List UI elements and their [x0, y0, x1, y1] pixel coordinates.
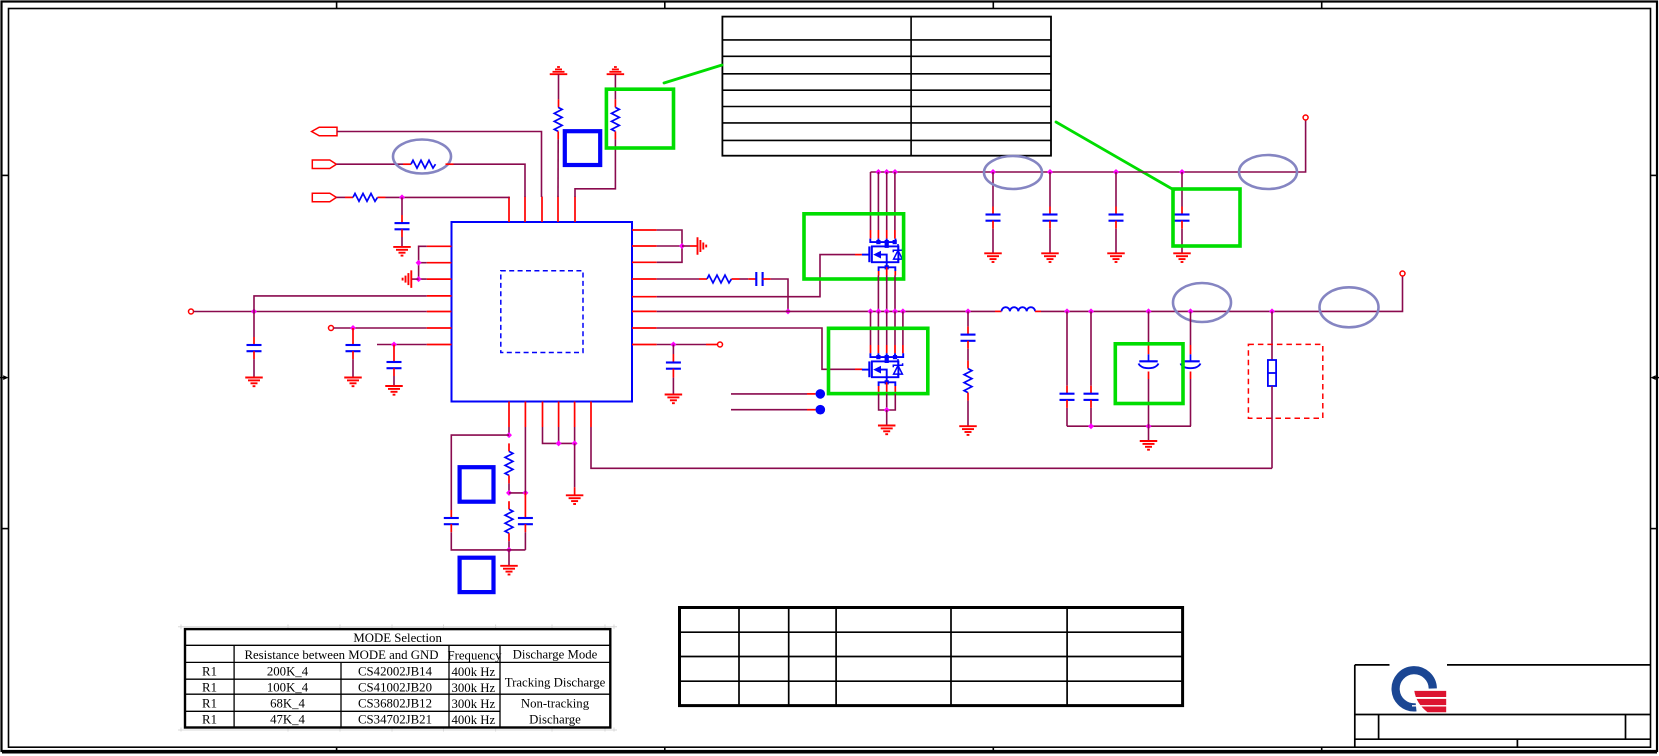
- junction: [1047, 169, 1053, 175]
- resistor R6: [707, 275, 732, 283]
- svg-text:47K_4: 47K_4: [270, 713, 305, 727]
- wire R6 to C5: [732, 278, 757, 280]
- wire C6 to ground: [672, 369, 674, 395]
- ground (left, rotated): [403, 270, 412, 288]
- junction: [1064, 308, 1070, 314]
- highlight box (green) around R5: [606, 89, 673, 148]
- wire rail to C10: [1115, 172, 1117, 215]
- wire rail to C8: [992, 172, 994, 215]
- wire SW to F1: [1271, 311, 1273, 360]
- junction: [1188, 308, 1194, 314]
- ground (C2): [245, 378, 263, 387]
- svg-text:R1: R1: [202, 665, 217, 679]
- ground (C6): [665, 395, 683, 404]
- wire to left ground: [411, 278, 418, 280]
- port P2 (input, arrow right): [312, 160, 336, 169]
- wire rail to C12: [1181, 172, 1183, 215]
- ellipse marker (VOUT): [1320, 287, 1379, 327]
- junction: [1088, 423, 1094, 429]
- junction: [506, 547, 512, 553]
- svg-text:CS36802JB12: CS36802JB12: [358, 697, 432, 711]
- junction: [900, 308, 906, 314]
- wire branch to upper pin: [254, 296, 427, 312]
- title block frame: [1355, 665, 1651, 747]
- wire SW to C16: [1190, 311, 1192, 354]
- highlight box (green) around Q1: [804, 214, 904, 279]
- wire C12 to ground: [1181, 221, 1183, 254]
- wire to ground: [508, 550, 510, 566]
- transistor Q1 (P-MOSFET): [862, 242, 903, 267]
- port P3 (input, arrow right): [312, 193, 336, 202]
- svg-text:Discharge Mode: Discharge Mode: [513, 647, 598, 661]
- svg-text:300k Hz: 300k Hz: [452, 697, 496, 711]
- wire P2 to R2: [336, 163, 411, 165]
- junction: [679, 243, 685, 249]
- fuse F1 (optional, in DNP box): [1268, 360, 1276, 386]
- junction: [350, 325, 356, 331]
- junction: [875, 308, 881, 314]
- junction: [416, 260, 422, 266]
- source bar Q2: [879, 380, 896, 393]
- svg-text:Tracking Discharge: Tracking Discharge: [505, 676, 606, 690]
- capacitor C8: [986, 215, 1001, 221]
- svg-text:200K_4: 200K_4: [267, 665, 309, 679]
- wire C14 down: [1090, 400, 1092, 426]
- ellipse marker (top rail): [984, 156, 1042, 189]
- drain bar Q2: [870, 353, 903, 363]
- wire C18 down: [524, 524, 526, 550]
- capacitor C7 (snubber): [961, 335, 976, 341]
- junction: [1146, 423, 1152, 429]
- svg-text:Resistance between MODE and GN: Resistance between MODE and GND: [244, 648, 438, 662]
- ellipse marker (SW rail): [1173, 283, 1231, 322]
- ground (Q2 source): [878, 426, 896, 435]
- junction: [875, 169, 881, 175]
- wire divider R8: [508, 443, 510, 451]
- table: notes block (empty): [680, 608, 1183, 706]
- ground (C4): [385, 386, 403, 395]
- capacitor C18: [518, 518, 533, 524]
- wire gnd to R4: [558, 74, 560, 107]
- wire SW to C13: [1066, 311, 1068, 393]
- wire C1 to ground: [401, 229, 403, 247]
- wire to C6: [672, 345, 674, 363]
- capacitor C6: [666, 363, 681, 369]
- resistor R7 (snubber): [964, 369, 972, 393]
- wire C18: [524, 493, 526, 518]
- resistor R4: [554, 107, 562, 131]
- wire TP1 to U1: [194, 311, 427, 313]
- junction: [572, 440, 578, 446]
- svg-text:Non-tracking: Non-tracking: [521, 697, 590, 711]
- power ground symbol (R5 top): [607, 67, 625, 74]
- svg-text:CS34702JB21: CS34702JB21: [358, 713, 432, 727]
- wire SW to C14: [1090, 311, 1092, 393]
- wire to ground: [886, 410, 888, 426]
- wire to C4: [393, 345, 395, 363]
- junction: [1179, 169, 1185, 175]
- resistor R8: [505, 451, 513, 475]
- wire P1 to U1 top pin: [337, 132, 542, 198]
- capacitor C5 (series): [756, 272, 762, 286]
- svg-text:Discharge: Discharge: [529, 713, 581, 727]
- highlight box (green) around C15: [1115, 344, 1183, 404]
- wire to C3: [352, 328, 354, 345]
- capacitor C15 (polarized): [1139, 354, 1159, 368]
- port TP3 (open circle): [718, 342, 723, 347]
- DNP dashed box (red): [1248, 344, 1322, 418]
- wire to ground: [1148, 426, 1150, 441]
- wire to test point TP4: [731, 389, 825, 399]
- blue marker box B1: [565, 131, 600, 165]
- junction: [670, 342, 676, 348]
- resistor R3: [353, 194, 378, 202]
- ellipse marker around R2: [393, 140, 451, 174]
- power ground symbol (R4 top): [550, 67, 568, 74]
- wire SW rail: [657, 310, 1002, 312]
- wire SW to C15: [1148, 311, 1150, 354]
- highlight box (green) around Q2: [829, 328, 928, 393]
- capacitor C4: [387, 362, 402, 368]
- svg-text:CS42002JB14: CS42002JB14: [358, 665, 433, 679]
- junction: [884, 407, 890, 413]
- port TP2 (open circle): [329, 326, 334, 331]
- junction: [868, 308, 874, 314]
- transistor Q2 (P-MOSFET): [862, 357, 903, 382]
- ground (bottom pins): [566, 495, 584, 504]
- capacitor C17: [444, 518, 459, 524]
- junction: [251, 309, 257, 315]
- wire pin to TP3/C6: [657, 344, 718, 346]
- source bar Q1: [879, 265, 896, 275]
- wire R8 to R9: [508, 475, 510, 493]
- wire SW to Q2 drain bus: [871, 311, 903, 353]
- wire gnd to R5: [614, 74, 616, 107]
- wire to C2: [253, 312, 255, 346]
- wire stub with C4: [377, 344, 427, 346]
- ellipse marker (near VIN): [1239, 155, 1297, 189]
- wire U1 to Q1 gate: [657, 255, 862, 297]
- wire R2 to U1 top pin: [446, 164, 526, 197]
- junction: [391, 342, 397, 348]
- wire bottom pins tie: [543, 427, 575, 443]
- capacitor C16 (polarized): [1181, 354, 1201, 368]
- wire C15 down: [1148, 372, 1150, 427]
- junction: [884, 308, 890, 314]
- port TP1 (open circle): [189, 309, 194, 314]
- junction: [1269, 308, 1275, 314]
- wire feedback run (bottom): [591, 427, 1272, 468]
- junction: [965, 308, 971, 314]
- capacitor C9: [1043, 215, 1058, 221]
- svg-text:68K_4: 68K_4: [270, 697, 305, 711]
- junction: [990, 169, 996, 175]
- svg-text:R1: R1: [202, 681, 217, 695]
- junction: [892, 308, 898, 314]
- port VOUT (open circle): [1400, 271, 1405, 276]
- wire C2 to ground: [253, 351, 255, 377]
- wire F1 to feedback run: [1271, 386, 1273, 468]
- wire branch to C17: [451, 435, 509, 518]
- table: revision block (empty): [722, 17, 1051, 156]
- wire to test point TP5: [731, 405, 825, 415]
- capacitor C14: [1084, 394, 1099, 400]
- wire bottom tie: [503, 549, 525, 551]
- wire Q1 source to SW rail: [878, 276, 895, 312]
- left upper pin-tie bus: [419, 246, 427, 279]
- wire C16 down: [1190, 372, 1192, 427]
- svg-text:MODE Selection: MODE Selection: [353, 631, 442, 645]
- svg-text:400k Hz: 400k Hz: [452, 713, 496, 727]
- inductor L1: [1002, 307, 1036, 311]
- junction: [1113, 169, 1119, 175]
- junction: [785, 308, 791, 314]
- wire P3 to R3: [336, 196, 353, 198]
- junction: [522, 490, 528, 496]
- wire R5 to U1 top pin: [575, 131, 615, 197]
- wire pin to R6: [657, 278, 707, 280]
- drain bar Q1: [870, 239, 897, 248]
- svg-text:300k Hz: 300k Hz: [452, 681, 496, 695]
- capacitor C2: [247, 345, 262, 351]
- svg-text:100K_4: 100K_4: [267, 681, 309, 695]
- junction: [884, 169, 890, 175]
- company logo: [1390, 663, 1449, 712]
- ground (right, rotated): [698, 237, 707, 255]
- svg-text:R1: R1: [202, 697, 217, 711]
- svg-text:CS41002JB20: CS41002JB20: [358, 681, 432, 695]
- resistor R2 (in ellipse): [411, 160, 436, 168]
- annotation line (green) to capacitor C12: [1056, 122, 1174, 190]
- wire VIN rail (top): [871, 120, 1306, 172]
- wire output gnd bus: [1067, 425, 1191, 427]
- wire C8 to ground: [992, 221, 994, 254]
- wire TP2 to U1: [334, 327, 427, 329]
- wire drain bus: [871, 172, 895, 239]
- highlight box (green) around C12: [1173, 189, 1240, 246]
- ground (divider): [500, 566, 518, 575]
- ground (C1): [393, 247, 411, 256]
- wire node to C18: [509, 492, 525, 494]
- ground (C12): [1173, 253, 1191, 262]
- wire R9: [508, 501, 510, 509]
- svg-text:Frequency: Frequency: [447, 648, 502, 662]
- blue marker box B3: [460, 558, 494, 592]
- junction: [556, 440, 562, 446]
- capacitor C10: [1109, 215, 1124, 221]
- ground (C9): [1041, 253, 1059, 262]
- ground (C3): [344, 378, 362, 387]
- wire R4 to U1 top pin: [557, 131, 559, 197]
- junction: [506, 490, 512, 496]
- junction node MODE: [399, 194, 405, 200]
- resistor R9: [505, 509, 513, 533]
- port VIN (open circle): [1303, 115, 1308, 120]
- table: MODE Selection: [178, 625, 617, 732]
- wire C17 down: [451, 524, 503, 550]
- wire C9 to ground: [1049, 221, 1051, 254]
- ground (C8): [984, 253, 1002, 262]
- wire SW rail right: [1035, 276, 1402, 311]
- junction: [1088, 308, 1094, 314]
- wire C13 down: [1066, 400, 1068, 426]
- wire to right ground: [682, 245, 698, 247]
- wire R3 to U1 top pin: [378, 196, 510, 198]
- wire MODE to C1: [401, 197, 403, 223]
- annotation line (green) to revision table: [664, 65, 722, 83]
- svg-text:400k Hz: 400k Hz: [452, 665, 496, 679]
- capacitor C1: [395, 223, 410, 229]
- wire R7 to ground: [967, 393, 969, 427]
- svg-text:R1: R1: [202, 713, 217, 727]
- capacitor C3: [346, 345, 361, 351]
- wire U1 to Q2 gate: [657, 328, 863, 369]
- wire to ground: [574, 443, 576, 495]
- port P1 (output, arrow left): [312, 127, 337, 136]
- capacitor C12: [1175, 215, 1190, 221]
- junction: [892, 169, 898, 175]
- junction: [416, 276, 422, 282]
- resistor R5 (highlighted): [612, 107, 620, 131]
- wire R9 down: [508, 533, 510, 550]
- wire C4 to ground: [393, 368, 395, 386]
- wire pin to divider: [508, 427, 510, 435]
- junction: [506, 432, 512, 438]
- blue marker box B2: [460, 467, 494, 502]
- wire C10 to ground: [1115, 221, 1117, 254]
- wire C5 to SW rail: [763, 279, 788, 311]
- ground (R7): [959, 426, 977, 435]
- wire C3 to ground: [352, 351, 354, 377]
- wire C7 to R7: [967, 341, 969, 369]
- capacitor C13: [1060, 394, 1075, 400]
- IC U1 (controller, with pins): [427, 197, 657, 428]
- wire SW to C7: [967, 311, 969, 334]
- wire rail to C9: [1049, 172, 1051, 215]
- right pin tie bus (pins 1-3): [657, 230, 682, 262]
- ground (output): [1140, 441, 1158, 450]
- ground (C10): [1107, 253, 1125, 262]
- wire pin to C18: [524, 427, 526, 493]
- junction: [1146, 308, 1152, 314]
- wire Q2 source to ground: [879, 394, 896, 410]
